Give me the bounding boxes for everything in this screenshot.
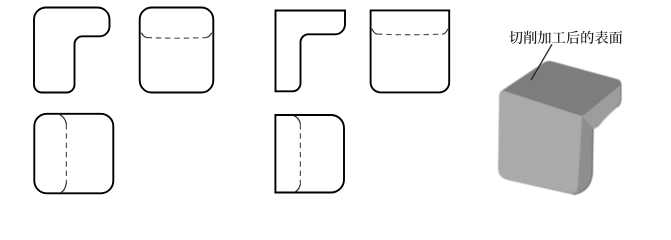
view 2 dashed line solid right end [207,33,212,38]
3D right sliver face of block [577,116,593,192]
view 4 dashed transition line [377,33,443,36]
view 6 vertical dashed transition line [299,124,301,184]
view 2 dashed line solid left end [141,33,146,38]
view 6: side view after machining, left edges sharp [275,115,344,193]
3D body silhouette (fillet + side surfaces, medium gray) [498,61,621,194]
view 2: top view, all corners rounded [140,8,214,93]
leader line to machined surface [531,44,552,80]
3D top face (dark machined surface) [503,61,622,116]
view 5 dashed line solid bottom end [61,183,67,193]
view 5 vertical dashed transition line [65,124,67,183]
view 3: front view after machining (sharp machined edges) [276,11,346,92]
3D sliver dark outline [574,129,594,194]
view 6 dashed line solid top end [294,116,300,124]
view 5 dashed line solid top end [60,115,67,124]
3D front face (light gray) [498,91,582,192]
view 6 dashed line solid bottom end [295,184,301,192]
view 4: top view after machining, top corners sharp [371,10,450,92]
view 2 dashed transition line [147,37,207,40]
label: surface after machining (切削加工后的表面) [509,31,622,44]
view 5: side view with cast rounds, all corners rounded [34,114,113,194]
view 4 dashed line solid right end [443,29,448,34]
view 1: front view with all cast rounded corners (L-profile) [34,8,110,93]
3D arm right edge accent [618,84,622,108]
view 4 dashed line solid left end [372,29,377,34]
